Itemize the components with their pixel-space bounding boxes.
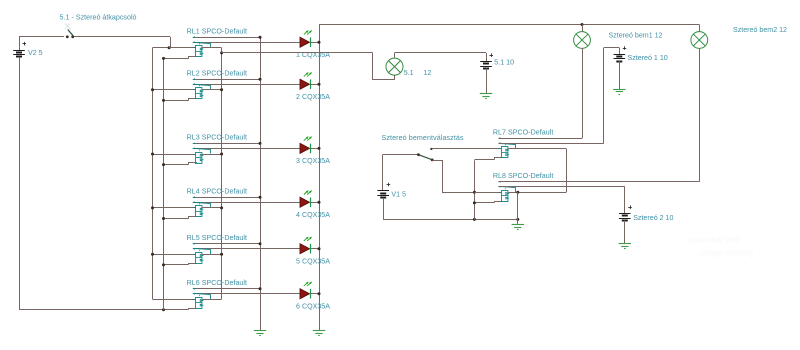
svg-text:RL4 SPCO-Default: RL4 SPCO-Default	[187, 188, 247, 196]
svg-text:RL1 SPCO-Default: RL1 SPCO-Default	[187, 27, 247, 35]
svg-text:RL2 SPCO-Default: RL2 SPCO-Default	[187, 69, 247, 77]
svg-text:2 CQX35A: 2 CQX35A	[296, 93, 330, 101]
svg-text:5.1 10: 5.1 10	[494, 58, 514, 66]
svg-text:5 CQX35A: 5 CQX35A	[296, 257, 330, 265]
svg-text:V1 5: V1 5	[391, 191, 406, 199]
svg-text:image hosting: image hosting	[700, 247, 753, 257]
svg-text:RL8 SPCO-Default: RL8 SPCO-Default	[493, 172, 553, 180]
svg-text:Sztereó bementválasztás: Sztereó bementválasztás	[382, 134, 464, 142]
svg-text:Sztereó 2 10: Sztereó 2 10	[633, 214, 673, 222]
svg-text:V2 5: V2 5	[28, 49, 43, 57]
svg-text:3 CQX35A: 3 CQX35A	[296, 157, 330, 165]
svg-text:RL6 SPCO-Default: RL6 SPCO-Default	[187, 279, 247, 287]
svg-text:5.1 - Sztereó átkapcsoló: 5.1 - Sztereó átkapcsoló	[60, 13, 137, 21]
svg-text:RL5 SPCO-Default: RL5 SPCO-Default	[187, 234, 247, 242]
svg-text:RL3 SPCO-Default: RL3 SPCO-Default	[187, 134, 247, 142]
svg-text:5.1 12: 5.1 12	[404, 69, 432, 77]
svg-text:6 CQX35A: 6 CQX35A	[296, 302, 330, 310]
svg-text:Sztereó 1 10: Sztereó 1 10	[628, 54, 668, 62]
svg-text:4 CQX35A: 4 CQX35A	[296, 211, 330, 219]
svg-text:RL7 SPCO-Default: RL7 SPCO-Default	[493, 128, 553, 136]
svg-text:Sztereó bem2 12: Sztereó bem2 12	[733, 26, 787, 34]
svg-text:uploaded with: uploaded with	[688, 234, 741, 244]
svg-text:Sztereó bem1 12: Sztereó bem1 12	[609, 31, 663, 39]
